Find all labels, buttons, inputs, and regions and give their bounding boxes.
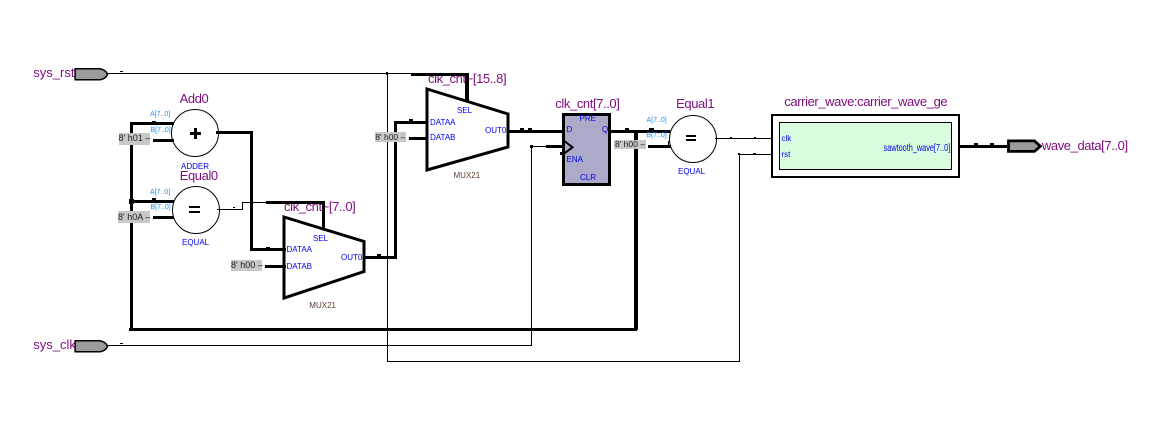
wire Equal0 output jog vertical <box>242 202 243 209</box>
label DATAB lower <box>287 262 312 271</box>
wire Q tick2 <box>649 128 654 130</box>
wire sys_rst horizontal thin <box>108 73 411 74</box>
constant 8'h00 mux upper <box>375 132 407 142</box>
wire Add0 output horizontal <box>216 131 253 134</box>
label rst <box>782 150 791 159</box>
wire clk_cnt~[7..0] sel thick <box>266 201 325 204</box>
label Equal1 B[7..0] <box>647 132 667 139</box>
wire sys_clk tick <box>120 343 123 344</box>
wire rst net bottom horizontal <box>387 361 740 362</box>
module carrier_wave outer box <box>771 114 960 178</box>
wire feedback bus bottom thick <box>129 328 638 331</box>
wire D tick2 <box>528 128 532 130</box>
label MUX21 lower <box>309 301 336 310</box>
wire OUT0 lower tick <box>377 254 381 256</box>
label OUT0 upper <box>485 126 506 135</box>
wire feedback bus right vertical from Q <box>634 131 638 330</box>
label sys_rst <box>33 65 74 80</box>
mux MUX21 upper trapezoid <box>423 85 512 174</box>
wire MUX21 lower DATAA horizontal <box>250 248 286 251</box>
label Add0 B[7..0] <box>151 127 171 134</box>
label EQUAL0 text <box>182 238 209 247</box>
node rst corner dot <box>738 153 740 155</box>
label sawtooth_wave[7..0] <box>883 143 950 154</box>
constant 8'h01 <box>119 133 150 145</box>
wire output bus tick2 <box>990 143 994 145</box>
wire Add0 A input <box>130 122 174 125</box>
label clk_cnt~[7..0] <box>284 199 355 214</box>
label Equal1 A[7..0] <box>647 117 667 124</box>
label Add0 A[7..0] <box>150 111 170 118</box>
label DATAB upper <box>430 133 455 142</box>
wire sys_clk vertical up to flipflop clock <box>531 146 532 346</box>
wire Equal0 A tick <box>152 198 156 200</box>
wire DATAA tick <box>266 247 270 249</box>
label Equal0 B[7..0] <box>151 204 171 211</box>
wire rst tick <box>753 153 756 154</box>
wire MUX21 upper DATAB stub <box>409 137 427 140</box>
label D <box>567 125 573 134</box>
wire Equal1 output tick1 <box>730 137 733 138</box>
wire rst into carrier_wave <box>739 154 771 155</box>
wire Add0 A tick <box>152 121 156 123</box>
label MUX21 upper <box>454 171 481 180</box>
wire Q tick <box>625 128 630 130</box>
label clk_cnt[7..0] <box>555 96 619 111</box>
flipflop clk_cnt[7..0] <box>562 113 611 186</box>
wire MUX21 upper OUT0 to flipflop D <box>508 130 562 133</box>
label clk <box>782 134 792 143</box>
constant 8'h00 mux lower <box>231 260 262 271</box>
wire Equal1 B stub tick <box>668 141 669 146</box>
wire sys_rst tick <box>120 71 123 72</box>
wire Equal0 output thin <box>217 209 243 210</box>
label Equal0 <box>180 168 218 183</box>
comparator Equal0 circle <box>172 186 220 234</box>
wire clock thin horizontal <box>531 146 547 147</box>
wire Add0 output vertical down <box>250 131 253 251</box>
wire MUX21 lower DATAB stub <box>265 265 286 268</box>
wire D tick1 <box>520 128 524 130</box>
comparator Equal1 circle <box>669 115 717 163</box>
pin sys_rst <box>74 67 110 82</box>
label DATAA lower <box>287 245 312 254</box>
label DATAA upper <box>430 118 455 127</box>
label carrier_wave:carrier_wave_ge <box>784 94 947 109</box>
wire Equal0 output tick <box>233 207 236 208</box>
wire DATAA upper tick <box>409 119 413 121</box>
wire Equal0 output thin to sel <box>242 202 266 203</box>
wire Equal0 A input <box>130 200 174 203</box>
label Add0 <box>180 91 209 106</box>
wire Equal1 B stub <box>648 145 671 148</box>
label Q <box>602 125 608 134</box>
label EQUAL1 text <box>678 167 705 176</box>
wire MUX21 upper DATAA horizontal <box>394 121 428 124</box>
wire sys_rst vertical down to rst net <box>387 73 388 362</box>
label CLR <box>580 173 596 182</box>
wire output bus tick1 <box>974 143 978 145</box>
label SEL lower <box>313 234 328 243</box>
wire feedback bus left vertical <box>130 122 134 330</box>
wire clk_cnt~[15..8] sel bus thick <box>411 73 470 76</box>
constant 8'h0A <box>118 211 150 223</box>
wire SEL vertical into MUX21 lower <box>322 202 325 230</box>
label sys_clk <box>33 337 76 352</box>
pin sys_clk <box>74 339 110 354</box>
flipflop clock triangle <box>563 139 575 156</box>
mux MUX21 lower trapezoid <box>280 213 368 302</box>
wire clock thick stub into flipflop <box>546 145 563 148</box>
node sys_rst junction <box>386 72 388 74</box>
Add0 plus sign <box>190 132 201 135</box>
Equal0 equals sign <box>189 206 200 208</box>
Equal1 equals sign <box>686 135 697 137</box>
adder Add0 circle <box>171 109 219 157</box>
wire sys_clk horizontal thin <box>108 345 531 346</box>
module carrier_wave inner green box <box>779 122 952 171</box>
pin wave_data output <box>1004 138 1045 154</box>
wire MUX21 upper DATAA vertical <box>394 121 397 259</box>
node nub below clock <box>560 152 563 155</box>
node Equal0 A junction dot <box>129 199 135 205</box>
label Equal0 A[7..0] <box>150 189 170 196</box>
node sys_clk corner dot <box>530 145 533 148</box>
label clk_cnt~[15..8] <box>428 71 506 86</box>
wire MUX21 lower OUT0 horizontal <box>364 256 397 259</box>
wire SEL vertical into MUX21 upper <box>465 74 469 102</box>
label ENA <box>567 155 583 164</box>
label SEL upper <box>457 106 472 115</box>
label PRE <box>580 114 596 123</box>
wire Equal1 output tick2 <box>754 137 757 138</box>
label ADDER <box>181 162 209 171</box>
wire rst net vertical up to carrier_wave <box>739 154 740 362</box>
wire flipflop Q to Equal1 A <box>611 130 670 133</box>
label OUT0 lower <box>341 253 362 262</box>
label wave_data[7..0] <box>1042 138 1128 153</box>
wire Equal0 B input <box>153 216 174 219</box>
wire sawtooth_wave output bus <box>960 145 1008 148</box>
constant 8'h00 equal1 <box>614 140 646 150</box>
wire Add0 B input <box>153 139 174 142</box>
label Equal1 <box>676 96 714 111</box>
wire Equal1 output thin <box>715 138 771 139</box>
